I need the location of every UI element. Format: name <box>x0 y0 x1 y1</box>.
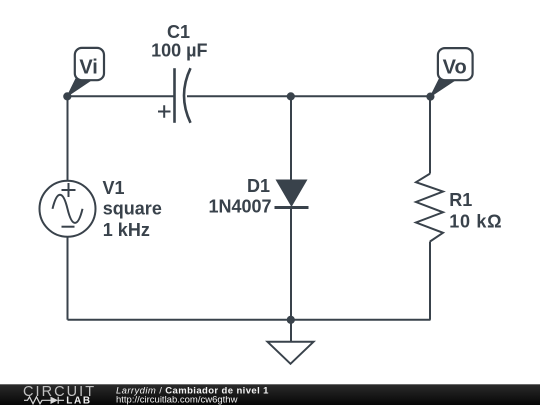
svg-text:1 kHz: 1 kHz <box>103 220 150 240</box>
svg-text:Vi: Vi <box>79 57 98 79</box>
svg-text:V1: V1 <box>103 178 125 198</box>
svg-text:square: square <box>103 199 162 219</box>
svg-text:10 kΩ: 10 kΩ <box>449 211 502 231</box>
svg-text:Vo: Vo <box>443 57 467 79</box>
svg-text:1N4007: 1N4007 <box>208 197 271 217</box>
svg-text:http://circuitlab.com/cw6gthw: http://circuitlab.com/cw6gthw <box>116 395 238 405</box>
svg-text:100 µF: 100 µF <box>151 41 207 61</box>
svg-text:LAB: LAB <box>66 395 91 405</box>
svg-text:R1: R1 <box>449 190 472 210</box>
svg-text:C1: C1 <box>167 22 190 42</box>
svg-text:D1: D1 <box>247 176 270 196</box>
